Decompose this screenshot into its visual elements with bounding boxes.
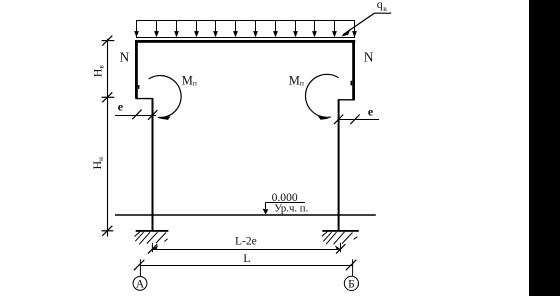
svg-text:L-2e: L-2e (235, 236, 257, 248)
L-2e dimension line (148, 243, 345, 254)
H dim tick bottom (102, 226, 114, 236)
beam (thick top girder) (135, 40, 355, 43)
H dim tick middle (102, 92, 115, 102)
svg-text:N: N (364, 49, 374, 64)
left lower column (152, 99, 154, 231)
H dimension line (107, 39, 109, 237)
e dimension right (334, 115, 379, 125)
svg-text:e: e (118, 100, 124, 114)
load arrows (135, 21, 356, 37)
leader arrowhead (341, 28, 351, 36)
right upper column (352, 40, 355, 100)
right lower column (338, 99, 340, 230)
svg-text:Ур.ч. п.: Ур.ч. п. (274, 202, 308, 214)
svg-text:Mп: Mп (289, 73, 304, 87)
axis circle B (344, 276, 358, 290)
svg-text:в: в (383, 4, 387, 13)
svg-text:L: L (243, 251, 250, 265)
e dimension left (115, 110, 157, 120)
right moment arc Mp (305, 74, 338, 117)
svg-text:N: N (120, 49, 130, 64)
right N arrow tick on column (351, 81, 353, 86)
right corbel step (338, 99, 355, 101)
distributed load box (137, 21, 355, 38)
left upper column (135, 40, 138, 99)
H dim tick top (102, 36, 115, 46)
right foundation hatch (322, 231, 357, 244)
left moment arc Mp (149, 76, 181, 118)
left moment arrowhead (159, 116, 171, 120)
ground line (115, 214, 376, 216)
level mark shelf (266, 203, 305, 214)
left foundation cap (136, 230, 169, 232)
svg-text:А: А (136, 278, 145, 290)
black sidebar (529, 0, 560, 296)
right foundation cap (322, 230, 359, 232)
svg-text:Hн: Hн (90, 157, 105, 170)
left foundation hatch (135, 231, 168, 244)
svg-text:Б: Б (348, 278, 355, 290)
axis circle A (133, 277, 147, 291)
right moment arrowhead (318, 116, 330, 120)
svg-text:Mп: Mп (182, 73, 197, 87)
L-2e left arrowhead (152, 245, 158, 249)
svg-text:Hв: Hв (91, 65, 106, 78)
L dimension line (134, 259, 356, 276)
svg-text:q: q (377, 0, 383, 11)
L-2e right arrowhead (335, 245, 341, 249)
level mark arrow (263, 209, 269, 215)
left N arrow tick on column (138, 85, 140, 89)
svg-text:e: e (368, 105, 374, 119)
left corbel step (136, 98, 153, 100)
leader line for q (343, 13, 391, 35)
